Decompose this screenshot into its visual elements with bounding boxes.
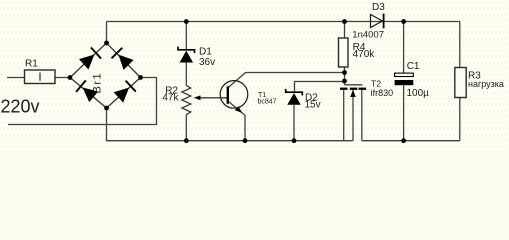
svg-text:Br1: Br1: [92, 72, 104, 94]
svg-text:36v: 36v: [199, 57, 215, 68]
svg-text:220v: 220v: [1, 97, 40, 117]
svg-text:47k: 47k: [162, 92, 179, 103]
svg-text:1n4007: 1n4007: [352, 30, 384, 41]
svg-text:470k: 470k: [353, 49, 376, 60]
svg-text:C1: C1: [407, 61, 420, 72]
svg-text:ifr830: ifr830: [371, 88, 394, 98]
svg-text:R1: R1: [25, 59, 38, 70]
svg-text:bc847: bc847: [258, 98, 277, 105]
svg-text:100µ: 100µ: [407, 88, 430, 99]
svg-text:15v: 15v: [305, 100, 321, 111]
svg-text:нагрузка: нагрузка: [468, 79, 504, 89]
svg-text:D3: D3: [372, 2, 385, 13]
